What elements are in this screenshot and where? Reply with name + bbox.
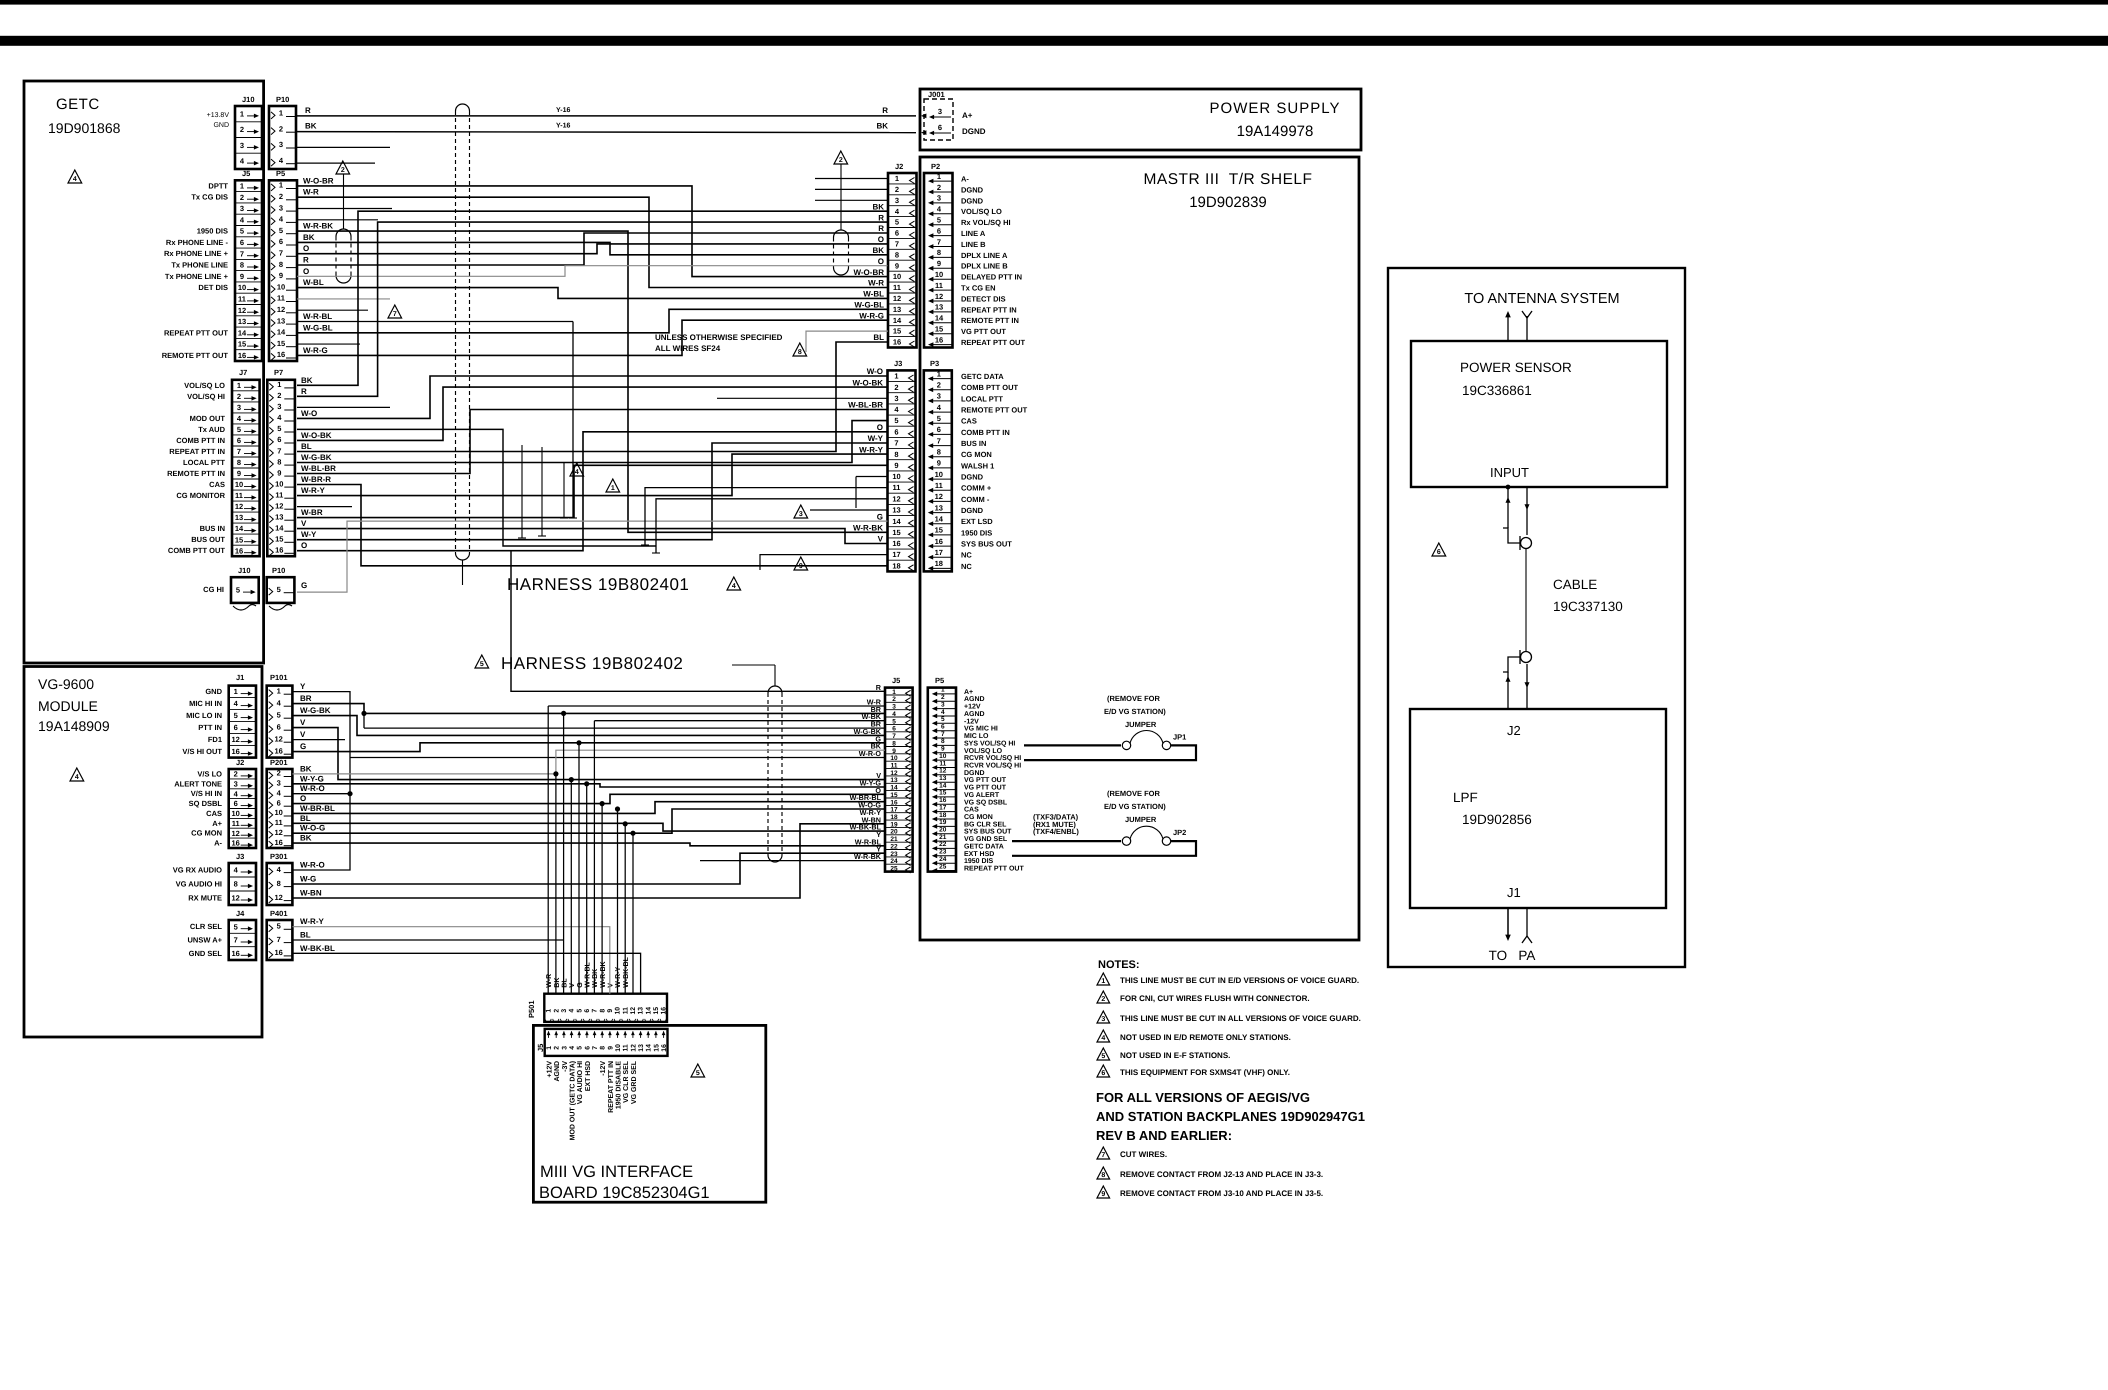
svg-text:MASTR III T/R SHELF: MASTR III T/R SHELF <box>1143 171 1312 188</box>
svg-text:8: 8 <box>1101 1172 1105 1179</box>
svg-text:11: 11 <box>623 1044 630 1051</box>
svg-text:5: 5 <box>480 661 484 668</box>
svg-text:1950 DIS: 1950 DIS <box>197 227 228 236</box>
svg-text:SYS VOL/SQ HI: SYS VOL/SQ HI <box>964 739 1015 747</box>
svg-text:14: 14 <box>275 523 284 532</box>
svg-text:WALSH 1: WALSH 1 <box>961 461 994 470</box>
svg-text:P7: P7 <box>274 368 283 377</box>
svg-text:7: 7 <box>937 436 941 445</box>
svg-text:R: R <box>305 106 311 115</box>
svg-text:15: 15 <box>235 535 243 544</box>
svg-text:2: 2 <box>277 391 281 400</box>
svg-text:BUS IN: BUS IN <box>961 439 986 448</box>
svg-text:POWER SUPPLY: POWER SUPPLY <box>1210 100 1341 117</box>
svg-text:9: 9 <box>937 459 941 468</box>
svg-text:3: 3 <box>561 1009 568 1013</box>
svg-text:AGND: AGND <box>964 696 985 703</box>
svg-text:BK: BK <box>303 233 315 242</box>
svg-text:CG MON: CG MON <box>961 450 992 459</box>
svg-text:J5: J5 <box>536 1044 545 1052</box>
svg-text:17: 17 <box>939 804 947 811</box>
svg-text:J2: J2 <box>895 162 903 171</box>
svg-text:COMB PTT OUT: COMB PTT OUT <box>168 546 225 555</box>
svg-text:20: 20 <box>939 827 947 834</box>
svg-text:3: 3 <box>895 196 899 205</box>
svg-text:2: 2 <box>277 769 281 778</box>
svg-text:3: 3 <box>240 141 244 150</box>
svg-text:6: 6 <box>584 1009 591 1013</box>
svg-text:VG PTT OUT: VG PTT OUT <box>964 785 1007 792</box>
svg-text:VG-9600: VG-9600 <box>38 676 94 692</box>
svg-text:8: 8 <box>941 738 945 745</box>
svg-text:4: 4 <box>575 469 579 476</box>
svg-text:V: V <box>300 718 306 727</box>
svg-text:7: 7 <box>277 935 281 944</box>
svg-text:LOCAL PTT: LOCAL PTT <box>183 458 225 467</box>
svg-text:10: 10 <box>235 480 243 489</box>
svg-text:P3: P3 <box>930 359 939 368</box>
svg-text:11: 11 <box>935 281 943 290</box>
svg-text:CG HI: CG HI <box>203 585 224 594</box>
svg-text:VG PTT OUT: VG PTT OUT <box>961 327 1006 336</box>
svg-text:16: 16 <box>893 338 901 347</box>
svg-text:O: O <box>878 235 884 244</box>
svg-text:V: V <box>608 983 615 988</box>
svg-text:REMOTE PTT OUT: REMOTE PTT OUT <box>961 406 1028 415</box>
svg-text:W-Y: W-Y <box>868 434 884 443</box>
svg-text:16: 16 <box>275 838 283 847</box>
svg-text:COMB PTT OUT: COMB PTT OUT <box>961 383 1018 392</box>
svg-text:COMM +: COMM + <box>961 484 992 493</box>
svg-text:J10: J10 <box>238 566 251 575</box>
svg-text:DPLX LINE A: DPLX LINE A <box>961 251 1008 260</box>
svg-text:2: 2 <box>234 770 238 779</box>
svg-text:15: 15 <box>238 340 246 349</box>
svg-text:12: 12 <box>275 501 283 510</box>
svg-text:J1: J1 <box>1507 885 1521 900</box>
svg-text:AGND: AGND <box>554 1061 561 1082</box>
svg-text:NC: NC <box>961 562 972 571</box>
svg-text:8: 8 <box>937 248 941 257</box>
svg-text:4: 4 <box>941 709 945 716</box>
svg-text:14: 14 <box>646 1044 653 1052</box>
svg-text:W-BL: W-BL <box>303 278 324 287</box>
svg-text:13: 13 <box>893 305 901 314</box>
svg-text:1: 1 <box>611 485 615 492</box>
svg-text:A+: A+ <box>212 819 222 828</box>
svg-text:V: V <box>569 983 576 988</box>
svg-text:FOR CNI, CUT WIRES FLUSH WITH: FOR CNI, CUT WIRES FLUSH WITH CONNECTOR. <box>1120 994 1310 1003</box>
svg-text:13: 13 <box>638 1044 645 1052</box>
svg-text:VG GRD SEL: VG GRD SEL <box>631 1060 638 1104</box>
svg-text:+12V: +12V <box>547 1061 554 1078</box>
svg-text:P2: P2 <box>931 162 940 171</box>
svg-text:3: 3 <box>938 107 942 116</box>
svg-text:V/S LO: V/S LO <box>197 769 222 778</box>
svg-text:14: 14 <box>939 782 947 789</box>
svg-text:HARNESS 19B802401: HARNESS 19B802401 <box>507 575 689 594</box>
svg-text:RCVR VOL/SQ HI: RCVR VOL/SQ HI <box>964 754 1021 762</box>
svg-text:8: 8 <box>279 260 283 269</box>
svg-text:W-O-BK: W-O-BK <box>301 431 332 440</box>
svg-text:6: 6 <box>584 1046 591 1050</box>
svg-text:J4: J4 <box>236 909 245 918</box>
svg-text:2: 2 <box>240 125 244 134</box>
svg-text:5: 5 <box>894 416 898 425</box>
svg-text:W-BK-BL: W-BK-BL <box>623 956 630 987</box>
svg-text:Tx PHONE LINE +: Tx PHONE LINE + <box>165 272 229 281</box>
svg-text:3: 3 <box>279 203 283 212</box>
svg-text:8: 8 <box>237 458 241 467</box>
svg-text:Tx CG EN: Tx CG EN <box>961 284 996 293</box>
svg-text:RCVR VOL/SQ HI: RCVR VOL/SQ HI <box>964 762 1021 770</box>
svg-text:NOT USED IN E/D REMOTE ONLY ST: NOT USED IN E/D REMOTE ONLY STATIONS. <box>1120 1033 1291 1042</box>
svg-text:VG SQ DSBL: VG SQ DSBL <box>964 799 1008 806</box>
svg-text:1: 1 <box>894 372 898 381</box>
svg-text:+13.8V: +13.8V <box>207 112 230 119</box>
svg-text:W-R: W-R <box>868 279 884 288</box>
svg-text:SYS BUS OUT: SYS BUS OUT <box>964 829 1012 836</box>
svg-text:MIC HI IN: MIC HI IN <box>189 699 222 708</box>
svg-text:8: 8 <box>937 448 941 457</box>
svg-text:BK: BK <box>300 834 312 843</box>
svg-text:16: 16 <box>275 746 283 755</box>
svg-text:21: 21 <box>939 834 947 841</box>
svg-text:CAS: CAS <box>964 807 979 814</box>
svg-text:V/S HI IN: V/S HI IN <box>191 789 222 798</box>
svg-text:HARNESS 19B802402: HARNESS 19B802402 <box>501 654 683 673</box>
svg-text:7: 7 <box>277 446 281 455</box>
svg-text:4: 4 <box>569 1046 576 1050</box>
svg-text:25: 25 <box>890 866 898 873</box>
svg-text:R: R <box>878 213 884 222</box>
svg-text:W-BR: W-BR <box>301 508 323 517</box>
svg-text:7: 7 <box>941 731 945 738</box>
svg-text:7: 7 <box>393 311 397 318</box>
svg-text:J7: J7 <box>239 368 247 377</box>
svg-text:6: 6 <box>895 229 899 238</box>
svg-text:Rx PHONE LINE -: Rx PHONE LINE - <box>166 238 229 247</box>
svg-text:2: 2 <box>237 392 241 401</box>
svg-text:REV B AND EARLIER:: REV B AND EARLIER: <box>1096 1128 1232 1143</box>
svg-text:Y-16: Y-16 <box>556 107 571 114</box>
svg-text:MIC LO: MIC LO <box>964 733 989 740</box>
svg-text:6: 6 <box>1101 1070 1105 1077</box>
svg-text:CABLE: CABLE <box>1553 577 1597 592</box>
svg-text:8: 8 <box>894 450 898 459</box>
svg-text:JUMPER: JUMPER <box>1125 720 1157 729</box>
svg-text:SYS BUS OUT: SYS BUS OUT <box>961 540 1012 549</box>
svg-text:18: 18 <box>935 559 943 568</box>
svg-text:19D901868: 19D901868 <box>48 120 121 136</box>
svg-text:VG MIC HI: VG MIC HI <box>964 726 998 733</box>
svg-text:CAS: CAS <box>206 809 222 818</box>
svg-text:6: 6 <box>237 436 241 445</box>
svg-text:6: 6 <box>277 798 281 807</box>
svg-text:14: 14 <box>892 517 901 526</box>
svg-text:JUMPER: JUMPER <box>1125 815 1157 824</box>
svg-text:7: 7 <box>240 249 244 258</box>
svg-text:AND STATION BACKPLANES 19D9029: AND STATION BACKPLANES 19D902947G1 <box>1096 1109 1365 1124</box>
svg-text:13: 13 <box>238 317 246 326</box>
svg-text:14: 14 <box>645 1007 652 1015</box>
svg-text:2: 2 <box>895 185 899 194</box>
svg-text:4: 4 <box>1101 1035 1105 1042</box>
svg-text:1: 1 <box>937 369 941 378</box>
svg-text:16: 16 <box>661 1044 668 1052</box>
svg-text:VG AUDIO HI: VG AUDIO HI <box>176 880 222 889</box>
svg-text:5: 5 <box>277 710 281 719</box>
svg-text:GND: GND <box>205 687 222 696</box>
svg-text:+12V: +12V <box>964 704 981 711</box>
svg-text:J001: J001 <box>928 90 945 99</box>
svg-text:3: 3 <box>277 402 281 411</box>
svg-text:REPEAT PTT IN: REPEAT PTT IN <box>961 305 1017 314</box>
svg-text:19C336861: 19C336861 <box>1462 383 1532 398</box>
svg-text:W-O-BR: W-O-BR <box>303 176 334 185</box>
svg-text:10: 10 <box>615 1007 622 1015</box>
svg-text:PTT IN: PTT IN <box>198 723 222 732</box>
svg-text:GND SEL: GND SEL <box>189 949 223 958</box>
svg-text:9: 9 <box>240 272 244 281</box>
svg-text:9: 9 <box>277 468 281 477</box>
svg-text:23: 23 <box>939 849 947 856</box>
svg-text:P101: P101 <box>270 673 288 682</box>
svg-text:R: R <box>882 106 888 115</box>
svg-text:2: 2 <box>839 157 843 164</box>
svg-text:P10: P10 <box>272 566 285 575</box>
svg-text:2: 2 <box>941 694 945 701</box>
svg-text:P401: P401 <box>270 909 288 918</box>
svg-text:6: 6 <box>279 237 283 246</box>
svg-text:LPF: LPF <box>1453 790 1478 805</box>
svg-text:VOL/SQ LO: VOL/SQ LO <box>961 207 1002 216</box>
svg-text:R: R <box>876 683 882 692</box>
svg-text:9: 9 <box>237 469 241 478</box>
svg-text:11: 11 <box>939 760 946 767</box>
svg-text:11: 11 <box>893 483 901 492</box>
svg-text:14: 14 <box>935 314 944 323</box>
svg-text:10: 10 <box>277 282 285 291</box>
svg-text:1: 1 <box>546 1046 553 1050</box>
svg-text:VOL/SQ LO: VOL/SQ LO <box>184 381 225 390</box>
svg-text:18: 18 <box>939 812 947 819</box>
svg-text:JP2: JP2 <box>1173 828 1186 837</box>
svg-text:6: 6 <box>894 427 898 436</box>
svg-text:6: 6 <box>938 123 942 132</box>
svg-text:12: 12 <box>935 492 943 501</box>
svg-text:13: 13 <box>939 775 947 782</box>
svg-text:12: 12 <box>232 829 240 838</box>
svg-text:2: 2 <box>279 192 283 201</box>
svg-text:DPTT: DPTT <box>208 181 228 190</box>
svg-text:15: 15 <box>892 528 900 537</box>
svg-text:UNLESS OTHERWISE SPECIFIED: UNLESS OTHERWISE SPECIFIED <box>655 333 783 342</box>
svg-text:CAS: CAS <box>209 480 225 489</box>
svg-text:7: 7 <box>592 1009 599 1013</box>
svg-text:BG CLR SEL: BG CLR SEL <box>964 821 1007 828</box>
svg-text:BOARD 19C852304G1: BOARD 19C852304G1 <box>539 1184 710 1202</box>
svg-text:J1: J1 <box>236 673 244 682</box>
svg-text:16: 16 <box>939 797 947 804</box>
svg-text:W-R-G: W-R-G <box>303 346 328 355</box>
svg-text:19A148909: 19A148909 <box>38 718 110 734</box>
svg-text:8: 8 <box>234 880 238 889</box>
svg-text:SQ DSBL: SQ DSBL <box>189 799 223 808</box>
svg-text:A-: A- <box>961 175 969 184</box>
svg-text:REPEAT PTT IN: REPEAT PTT IN <box>169 447 225 456</box>
svg-text:COMB PTT IN: COMB PTT IN <box>176 436 225 445</box>
svg-text:12: 12 <box>893 294 901 303</box>
svg-text:10: 10 <box>892 472 900 481</box>
svg-text:12: 12 <box>277 305 285 314</box>
svg-text:8: 8 <box>600 1046 607 1050</box>
svg-text:CUT WIRES.: CUT WIRES. <box>1120 1150 1167 1159</box>
svg-text:W-O: W-O <box>301 409 317 418</box>
svg-text:J5: J5 <box>892 676 900 685</box>
svg-text:10: 10 <box>935 470 943 479</box>
svg-text:Tx PHONE LINE: Tx PHONE LINE <box>171 261 228 270</box>
svg-text:7: 7 <box>894 439 898 448</box>
svg-text:16: 16 <box>232 747 240 756</box>
svg-text:P501: P501 <box>527 1000 536 1018</box>
svg-text:LINE A: LINE A <box>961 229 986 238</box>
svg-text:GETC: GETC <box>56 96 100 113</box>
svg-text:W-R-BK: W-R-BK <box>303 222 333 231</box>
svg-text:3: 3 <box>937 194 941 203</box>
svg-text:16: 16 <box>232 949 240 958</box>
svg-text:DGND: DGND <box>961 473 984 482</box>
svg-text:Y-16: Y-16 <box>556 123 571 130</box>
svg-text:P10: P10 <box>276 95 289 104</box>
svg-text:W-R-G: W-R-G <box>859 311 884 320</box>
svg-text:12: 12 <box>232 894 240 903</box>
svg-text:VG AUDIO HI: VG AUDIO HI <box>577 1061 584 1104</box>
svg-text:GETC DATA: GETC DATA <box>964 843 1004 850</box>
svg-text:W-G-BK: W-G-BK <box>301 453 332 462</box>
svg-text:JP1: JP1 <box>1173 732 1186 741</box>
svg-text:RX MUTE: RX MUTE <box>188 894 222 903</box>
svg-text:2: 2 <box>554 1046 561 1050</box>
svg-text:E/D VG STATION): E/D VG STATION) <box>1104 802 1166 811</box>
svg-text:15: 15 <box>653 1007 660 1015</box>
svg-text:THIS LINE MUST BE CUT IN E/D V: THIS LINE MUST BE CUT IN E/D VERSIONS OF… <box>1120 976 1359 985</box>
svg-text:FOR ALL VERSIONS OF AEGIS/VG: FOR ALL VERSIONS OF AEGIS/VG <box>1096 1090 1310 1105</box>
svg-text:BK: BK <box>305 122 317 131</box>
svg-text:THIS EQUIPMENT FOR SXMS4T (VHF: THIS EQUIPMENT FOR SXMS4T (VHF) ONLY. <box>1120 1068 1290 1077</box>
svg-text:J3: J3 <box>894 359 902 368</box>
svg-text:16: 16 <box>935 537 943 546</box>
svg-text:INPUT: INPUT <box>1490 465 1529 480</box>
svg-text:18: 18 <box>892 561 900 570</box>
svg-text:1: 1 <box>240 182 244 191</box>
svg-text:5: 5 <box>941 716 945 723</box>
svg-text:BR: BR <box>300 694 312 703</box>
svg-text:W-O: W-O <box>867 367 883 376</box>
svg-text:19A149978: 19A149978 <box>1237 123 1314 140</box>
svg-text:POWER SENSOR: POWER SENSOR <box>1460 360 1572 375</box>
svg-text:8: 8 <box>798 349 802 356</box>
svg-text:7: 7 <box>234 936 238 945</box>
svg-text:W-Y: W-Y <box>301 530 317 539</box>
svg-text:LINE B: LINE B <box>961 240 986 249</box>
svg-text:9: 9 <box>1101 1191 1105 1198</box>
svg-text:11: 11 <box>893 283 901 292</box>
svg-text:V: V <box>301 519 307 528</box>
svg-text:DGND: DGND <box>962 127 986 136</box>
svg-text:9: 9 <box>895 261 899 270</box>
svg-text:CG MONITOR: CG MONITOR <box>176 491 225 500</box>
svg-text:10: 10 <box>275 808 283 817</box>
svg-text:5: 5 <box>277 585 281 594</box>
svg-text:VOL/SQ HI: VOL/SQ HI <box>187 392 225 401</box>
svg-text:2: 2 <box>1101 996 1105 1003</box>
svg-text:MIC LO IN: MIC LO IN <box>186 711 222 720</box>
svg-text:3: 3 <box>799 511 803 518</box>
svg-text:16: 16 <box>275 546 283 555</box>
svg-text:W-R-Y: W-R-Y <box>615 967 622 988</box>
svg-text:P201: P201 <box>270 758 288 767</box>
svg-text:1: 1 <box>279 181 283 190</box>
svg-text:15: 15 <box>939 790 947 797</box>
svg-text:4: 4 <box>732 583 736 590</box>
svg-text:(REMOVE FOR: (REMOVE FOR <box>1107 694 1161 703</box>
svg-text:5: 5 <box>279 226 283 235</box>
svg-text:Y: Y <box>300 682 306 691</box>
svg-text:DGND: DGND <box>961 196 984 205</box>
svg-text:5: 5 <box>237 425 241 434</box>
svg-text:1: 1 <box>240 110 244 119</box>
svg-text:4: 4 <box>569 1009 576 1013</box>
svg-text:R: R <box>303 256 309 265</box>
svg-text:G: G <box>300 742 306 751</box>
svg-text:6: 6 <box>1437 549 1441 556</box>
svg-text:BUS OUT: BUS OUT <box>191 535 225 544</box>
svg-text:DGND: DGND <box>961 506 984 515</box>
svg-text:W-R-BL: W-R-BL <box>303 312 332 321</box>
svg-text:REMOVE CONTACT FROM J2-13 AND: REMOVE CONTACT FROM J2-13 AND PLACE IN J… <box>1120 1170 1323 1179</box>
svg-text:8: 8 <box>895 250 899 259</box>
svg-text:10: 10 <box>939 753 947 760</box>
svg-text:6: 6 <box>937 226 941 235</box>
svg-text:A+: A+ <box>964 689 973 696</box>
svg-text:BL: BL <box>301 442 312 451</box>
svg-text:UNSW A+: UNSW A+ <box>187 936 222 945</box>
svg-text:CG MON: CG MON <box>191 829 222 838</box>
svg-text:2: 2 <box>341 167 345 174</box>
svg-text:10: 10 <box>893 272 901 281</box>
svg-text:-3V: -3V <box>562 1061 569 1072</box>
svg-text:A+: A+ <box>962 111 973 120</box>
svg-text:12: 12 <box>235 502 243 511</box>
svg-text:13: 13 <box>275 512 283 521</box>
svg-text:W-BR-BL: W-BR-BL <box>300 804 335 813</box>
svg-text:W-R-O: W-R-O <box>300 861 325 870</box>
svg-text:14: 14 <box>277 328 286 337</box>
svg-text:W-BL-BR: W-BL-BR <box>301 464 336 473</box>
svg-text:2: 2 <box>894 383 898 392</box>
svg-text:5: 5 <box>696 1070 700 1077</box>
svg-text:DPLX LINE B: DPLX LINE B <box>961 262 1008 271</box>
svg-text:E/D VG STATION): E/D VG STATION) <box>1104 707 1166 716</box>
svg-text:10: 10 <box>232 809 240 818</box>
svg-text:1: 1 <box>895 174 899 183</box>
svg-text:8: 8 <box>599 1009 606 1013</box>
svg-text:7: 7 <box>279 249 283 258</box>
svg-text:DELAYED PTT IN: DELAYED PTT IN <box>961 273 1022 282</box>
svg-text:AGND: AGND <box>964 711 985 718</box>
svg-text:12: 12 <box>630 1007 637 1015</box>
